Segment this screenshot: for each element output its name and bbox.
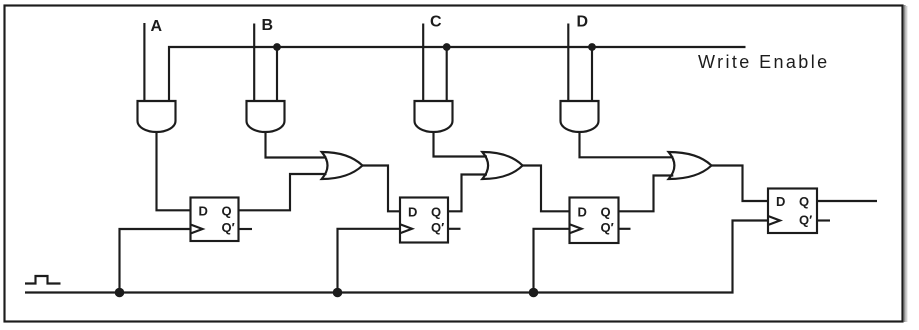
wire U2 Q feedback to O2 bottom input — [448, 175, 487, 212]
svg-text:Q: Q — [799, 194, 809, 209]
svg-text:Q′: Q′ — [601, 220, 614, 235]
svg-text:Q: Q — [222, 204, 232, 219]
junction dot clock-U2 — [333, 288, 343, 298]
input label C — [430, 14, 442, 31]
flip-flop U4 box — [768, 189, 817, 234]
svg-text:Q′: Q′ — [431, 220, 444, 235]
junction dot WE-C — [443, 43, 451, 51]
U4 pin label Q' — [799, 213, 812, 228]
svg-text:B: B — [262, 17, 274, 34]
wire O3 output to U4 D input — [712, 166, 769, 202]
wire U4 Q' stub — [817, 219, 830, 221]
U3 pin label D — [578, 205, 587, 220]
svg-text:Q: Q — [601, 205, 611, 220]
U4 clock triangle — [768, 216, 780, 225]
svg-text:D: D — [408, 205, 417, 220]
wire U3 Q' stub — [619, 228, 631, 230]
OR gate O3 — [669, 152, 712, 179]
flip-flop U1 box — [191, 198, 239, 242]
border shadow right — [903, 5, 905, 322]
U3 clock triangle — [570, 224, 582, 233]
wire write-enable tap to G4 — [591, 47, 593, 101]
wire U2 Q' stub — [448, 228, 461, 230]
wire O1 output to U2 D input — [363, 166, 401, 212]
U2 clock triangle — [400, 224, 412, 233]
junction dot clock-U3 — [529, 288, 539, 298]
AND gate G2 — [247, 101, 285, 132]
input label B — [262, 17, 274, 34]
wire G3 output to O2 top input — [434, 132, 488, 157]
svg-text:D: D — [578, 205, 587, 220]
svg-text:A: A — [151, 18, 163, 35]
wire U3 Q feedback to O3 bottom input — [619, 176, 674, 212]
wire input B vertical — [253, 24, 255, 102]
wire G2 output to O1 top input — [266, 132, 327, 158]
U2 pin label Q' — [431, 220, 444, 235]
U4 pin label D — [776, 194, 785, 209]
wire U1 Q' stub — [239, 228, 253, 230]
wire input C vertical — [422, 24, 424, 102]
U2 pin label Q — [431, 205, 441, 220]
wire G4 output to O3 top input — [580, 132, 674, 157]
svg-text:C: C — [430, 14, 442, 31]
clock pulse symbol — [25, 276, 61, 284]
svg-text:Q′: Q′ — [799, 213, 812, 228]
U3 pin label Q — [601, 205, 611, 220]
wire U4 Q output — [817, 200, 877, 202]
junction dot WE-D — [588, 43, 596, 51]
svg-text:D: D — [776, 194, 785, 209]
AND gate G3 — [415, 101, 453, 132]
wire input D vertical — [567, 24, 569, 102]
svg-text:D: D — [577, 14, 589, 31]
junction dot WE-B — [273, 43, 281, 51]
wire U1 Q feedback to O1 bottom input — [239, 174, 327, 210]
svg-text:Write Enable: Write Enable — [698, 52, 830, 72]
wire G1 output to U1 D input — [157, 132, 191, 210]
label Write Enable — [698, 52, 830, 72]
svg-text:Q′: Q′ — [222, 220, 235, 235]
U2 pin label D — [408, 205, 417, 220]
svg-text:Q: Q — [431, 205, 441, 220]
wire O2 output to U3 D input — [523, 166, 570, 212]
AND gate G4 — [561, 101, 599, 132]
OR gate O2 — [482, 152, 522, 179]
U3 pin label Q' — [601, 220, 614, 235]
input label A — [151, 18, 163, 35]
wire write-enable bus with bend down to gate G1 — [169, 47, 746, 101]
wire clock riser to U1 — [120, 229, 191, 293]
U1 clock triangle — [191, 225, 203, 234]
U1 pin label Q — [222, 204, 232, 219]
svg-text:D: D — [199, 204, 208, 219]
AND gate G1 — [138, 101, 176, 132]
U1 pin label D — [199, 204, 208, 219]
flip-flop U2 box — [400, 198, 448, 243]
wire clock riser to U2 — [338, 229, 401, 293]
wire clock bus with bend up to U4 clock — [25, 221, 768, 293]
wire write-enable tap to G3 — [446, 47, 448, 101]
wire clock riser to U3 — [534, 229, 570, 293]
wire input A vertical — [143, 23, 145, 101]
U4 pin label Q — [799, 194, 809, 209]
input label D — [577, 14, 589, 31]
U1 pin label Q' — [222, 220, 235, 235]
OR gate O1 — [322, 152, 363, 179]
junction dot clock-U1 — [115, 288, 125, 298]
flip-flop U3 box — [570, 198, 619, 244]
wire write-enable tap to G2 — [276, 47, 278, 101]
